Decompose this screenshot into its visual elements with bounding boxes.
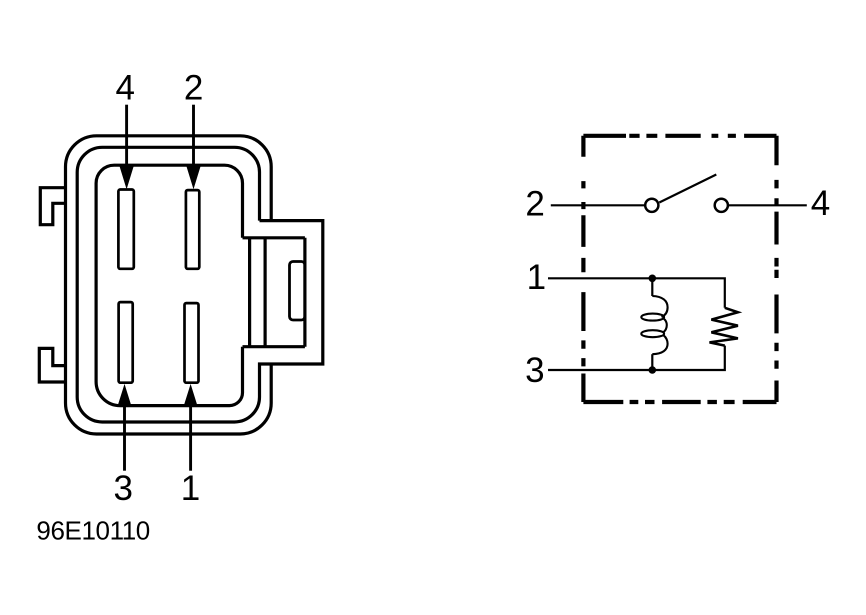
svg-text:4: 4 [811, 184, 830, 223]
svg-text:1: 1 [527, 258, 546, 297]
svg-text:4: 4 [115, 68, 134, 107]
svg-text:3: 3 [113, 469, 132, 508]
svg-text:2: 2 [525, 185, 544, 224]
svg-text:1: 1 [181, 469, 200, 508]
svg-text:3: 3 [525, 351, 544, 390]
svg-text:96E10110: 96E10110 [36, 516, 149, 546]
svg-text:2: 2 [184, 68, 203, 107]
